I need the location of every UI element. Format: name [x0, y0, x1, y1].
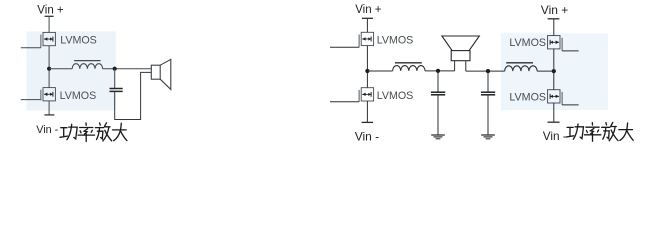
- wire Q3 gate bar and stub: [358, 35, 360, 48]
- wire L2 to speaker +: [425, 70, 455, 72]
- wire speaker + terminal: [454, 61, 456, 71]
- wire Q2 source to Vin-: [48, 101, 50, 115]
- node E junction dot: [486, 69, 490, 73]
- speaker SPK1: [151, 59, 171, 89]
- svg-text:Vin -: Vin -: [543, 129, 567, 143]
- wire node A to L1: [49, 68, 72, 70]
- shaded region left: [27, 32, 116, 111]
- wire Q4 source to Vin-: [366, 101, 368, 122]
- node D junction dot: [436, 69, 440, 73]
- wire speaker - terminal: [465, 61, 467, 71]
- wire Q5 gate bar and stub: [561, 38, 563, 51]
- svg-text:Vin -: Vin -: [36, 124, 58, 136]
- speaker SPK2 cone: [442, 36, 479, 51]
- speaker SPK2: [451, 51, 470, 61]
- svg-text:Vin +: Vin +: [37, 5, 64, 17]
- wire Q6 gate bar and stub: [561, 92, 563, 105]
- transistor Q2 (bottom left MOSFET): [43, 88, 55, 101]
- wire L3 to node F: [537, 70, 554, 72]
- terminal T-bar top bridge-left: [362, 17, 373, 19]
- inductor L1: [72, 61, 102, 69]
- capacitor C1: [110, 89, 123, 92]
- terminal T-bar top left: [45, 15, 54, 17]
- svg-text:LVMOS: LVMOS: [377, 35, 414, 47]
- wire L1 to speaker: [103, 68, 152, 70]
- wire Vin+ to Q3 drain: [366, 18, 368, 32]
- node C junction dot: [365, 69, 369, 73]
- transistor Q6 (bridge bottom-right MOSFET): [548, 90, 560, 103]
- wire Q4 gate bar and stub: [358, 90, 360, 102]
- capacitor C2 top lead: [437, 71, 439, 92]
- wire Q6 source to Vin: [553, 103, 555, 122]
- node A junction dot: [47, 67, 51, 71]
- capacitor C2 bottom lead: [437, 95, 439, 135]
- label 功率放大 (left): [60, 123, 127, 142]
- svg-text:LVMOS: LVMOS: [377, 90, 414, 102]
- capacitor C2: [431, 92, 445, 95]
- capacitor C3 bottom lead: [487, 95, 489, 135]
- wire Q1 source to Q2 drain: [48, 46, 50, 88]
- svg-text:LVMOS: LVMOS: [509, 37, 546, 49]
- shaded region right: [501, 33, 608, 110]
- svg-text:Vin +: Vin +: [541, 3, 568, 17]
- wire Q3 source to Q4 drain: [366, 46, 368, 88]
- svg-text:Vin +: Vin +: [355, 4, 382, 16]
- wire Q2 gate bar and stub: [40, 90, 42, 101]
- terminal T-bar top bridge-right: [548, 18, 560, 20]
- wire Vin+ to Q5 drain: [553, 19, 555, 36]
- wire C1 bottom return loop: [115, 72, 152, 119]
- svg-text:LVMOS: LVMOS: [509, 91, 546, 103]
- transistor Q5 (bridge top-right MOSFET): [548, 36, 560, 49]
- svg-text:LVMOS: LVMOS: [60, 90, 97, 102]
- terminal T-bar bottom left: [44, 114, 54, 116]
- wire Vin+ to Q1 drain: [48, 16, 50, 32]
- wire Q5 source to Q6 drain: [553, 49, 555, 90]
- svg-text:Vin -: Vin -: [355, 129, 379, 143]
- wire node C to L2: [367, 70, 392, 72]
- svg-text:LVMOS: LVMOS: [60, 35, 97, 47]
- wire speaker - to L3: [466, 70, 505, 72]
- inductor L3: [505, 63, 537, 71]
- transistor Q1 (top left MOSFET): [43, 32, 55, 45]
- ground G2: [481, 135, 495, 139]
- node F junction dot: [552, 69, 556, 73]
- capacitor C1 top lead: [114, 69, 116, 89]
- terminal T-bar bottom bridge-left: [362, 121, 373, 123]
- capacitor C3 top lead: [487, 71, 489, 92]
- ground G1: [431, 135, 445, 139]
- terminal T-bar bottom bridge-right: [548, 121, 560, 123]
- label 功率放大 (right): [566, 123, 633, 142]
- transistor Q3 (bridge top-left MOSFET): [361, 32, 373, 45]
- inductor L2: [393, 63, 425, 71]
- wire Q1 gate bar and stub: [40, 35, 42, 48]
- transistor Q4 (bridge bottom-left MOSFET): [361, 88, 373, 101]
- capacitor C3: [481, 92, 495, 95]
- node B junction dot: [113, 67, 117, 71]
